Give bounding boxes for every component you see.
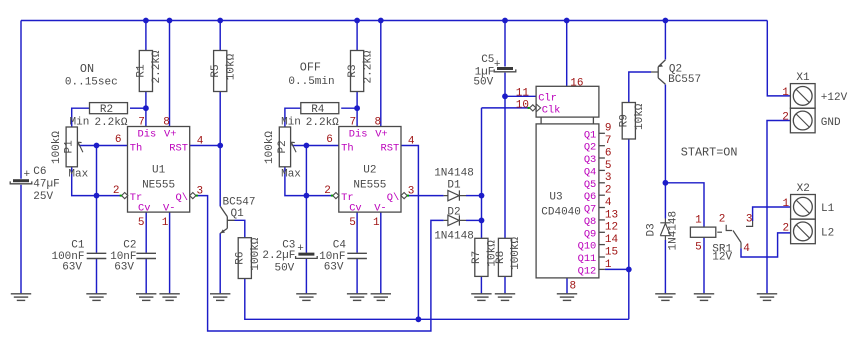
- svg-text:U3: U3: [549, 192, 562, 204]
- svg-text:2: 2: [719, 213, 726, 225]
- svg-text:Q6: Q6: [584, 191, 596, 203]
- svg-text:100kΩ: 100kΩ: [510, 237, 522, 270]
- svg-text:RST: RST: [169, 143, 188, 155]
- svg-text:4: 4: [743, 243, 750, 255]
- svg-text:Q9: Q9: [584, 228, 596, 240]
- svg-text:63V: 63V: [114, 261, 134, 273]
- svg-text:D1: D1: [447, 179, 461, 191]
- svg-text:D2: D2: [447, 207, 460, 219]
- svg-text:Min: Min: [70, 117, 90, 129]
- svg-text:1: 1: [373, 217, 380, 229]
- svg-text:X2: X2: [797, 183, 810, 195]
- svg-text:NE555: NE555: [353, 180, 386, 192]
- svg-text:U1: U1: [152, 165, 166, 177]
- svg-text:R9: R9: [619, 114, 631, 127]
- svg-text:8: 8: [163, 117, 170, 129]
- svg-text:100kΩ: 100kΩ: [51, 131, 63, 164]
- svg-text:2.2kΩ: 2.2kΩ: [151, 50, 163, 83]
- svg-text:Q3: Q3: [584, 154, 596, 166]
- svg-text:9: 9: [605, 123, 612, 135]
- svg-text:R5: R5: [210, 64, 222, 77]
- svg-text:5: 5: [349, 217, 356, 229]
- svg-text:RST: RST: [380, 143, 399, 155]
- svg-text:Q4: Q4: [584, 166, 596, 178]
- svg-text:R7: R7: [471, 251, 483, 264]
- svg-text:GND: GND: [821, 117, 841, 129]
- svg-text:R8: R8: [495, 251, 507, 264]
- svg-text:BC547: BC547: [223, 197, 256, 209]
- svg-text:100kΩ: 100kΩ: [264, 131, 276, 164]
- svg-text:12: 12: [605, 222, 618, 234]
- svg-text:6: 6: [326, 134, 333, 146]
- svg-text:12V: 12V: [712, 252, 732, 264]
- svg-text:2.2kΩ: 2.2kΩ: [306, 117, 339, 129]
- svg-text:5: 5: [138, 217, 145, 229]
- svg-text:1: 1: [782, 87, 789, 99]
- svg-text:BC557: BC557: [668, 74, 701, 86]
- svg-text:10kΩ: 10kΩ: [225, 53, 237, 80]
- svg-text:Max: Max: [68, 169, 88, 181]
- svg-text:C1: C1: [71, 239, 85, 251]
- svg-text:10kΩ: 10kΩ: [634, 103, 646, 130]
- svg-text:D3: D3: [646, 223, 658, 236]
- svg-text:V+: V+: [164, 129, 176, 141]
- svg-text:Q\: Q\: [176, 192, 188, 204]
- svg-text:16: 16: [570, 77, 583, 89]
- svg-text:50V: 50V: [274, 263, 294, 275]
- svg-text:NE555: NE555: [142, 180, 175, 192]
- svg-text:+: +: [23, 169, 30, 181]
- svg-text:Q1: Q1: [231, 208, 245, 220]
- svg-text:3: 3: [746, 214, 753, 226]
- svg-text:5: 5: [605, 160, 612, 172]
- svg-text:START=ON: START=ON: [681, 145, 738, 159]
- svg-text:4: 4: [197, 136, 204, 148]
- svg-text:11: 11: [516, 88, 530, 100]
- svg-text:8: 8: [570, 280, 577, 292]
- svg-text:63V: 63V: [324, 261, 344, 273]
- svg-text:3: 3: [605, 172, 612, 184]
- svg-text:Q11: Q11: [578, 253, 597, 265]
- svg-text:Th: Th: [130, 143, 142, 155]
- svg-text:1: 1: [782, 198, 789, 210]
- svg-text:10: 10: [516, 100, 529, 112]
- svg-text:7: 7: [605, 135, 612, 147]
- svg-text:15: 15: [605, 246, 618, 258]
- svg-text:P1: P1: [64, 140, 76, 154]
- svg-text:2.2kΩ: 2.2kΩ: [94, 117, 127, 129]
- svg-text:1: 1: [695, 214, 702, 226]
- svg-text:8: 8: [374, 117, 381, 129]
- svg-text:3: 3: [197, 186, 204, 198]
- svg-text:ON: ON: [80, 62, 94, 76]
- svg-text:1N4148: 1N4148: [668, 211, 680, 251]
- svg-text:V+: V+: [375, 129, 387, 141]
- svg-text:7: 7: [138, 117, 145, 129]
- svg-text:C4: C4: [333, 239, 347, 251]
- svg-text:2: 2: [782, 112, 789, 124]
- svg-text:C5: C5: [481, 54, 494, 66]
- svg-text:Q5: Q5: [584, 179, 596, 191]
- svg-text:4: 4: [605, 197, 612, 209]
- svg-text:6: 6: [115, 134, 122, 146]
- svg-text:V-: V-: [163, 203, 175, 215]
- svg-text:Clr: Clr: [538, 93, 557, 105]
- svg-text:7: 7: [349, 117, 356, 129]
- svg-text:Q8: Q8: [584, 216, 596, 228]
- svg-text:2.2kΩ: 2.2kΩ: [362, 50, 374, 83]
- svg-text:CD4040: CD4040: [541, 206, 581, 218]
- svg-text:X1: X1: [796, 72, 810, 84]
- svg-text:C6: C6: [33, 166, 46, 178]
- svg-text:50V: 50V: [473, 77, 493, 89]
- svg-text:Clk: Clk: [542, 105, 561, 117]
- svg-text:R3: R3: [347, 64, 359, 77]
- svg-text:C2: C2: [123, 239, 136, 251]
- svg-text:Max: Max: [281, 169, 301, 181]
- svg-text:Dis: Dis: [138, 129, 157, 141]
- svg-text:0..5min: 0..5min: [288, 76, 334, 88]
- svg-text:Dis: Dis: [349, 129, 368, 141]
- svg-text:L1: L1: [821, 203, 835, 215]
- svg-text:U2: U2: [363, 165, 376, 177]
- svg-text:6: 6: [605, 147, 612, 159]
- svg-text:R1: R1: [136, 64, 148, 78]
- svg-text:1: 1: [162, 217, 169, 229]
- svg-text:+12V: +12V: [821, 92, 848, 104]
- svg-text:Q7: Q7: [584, 204, 596, 216]
- svg-text:Q2: Q2: [584, 142, 596, 154]
- svg-text:R6: R6: [235, 251, 247, 264]
- svg-text:0..15sec: 0..15sec: [65, 77, 118, 89]
- svg-text:R4: R4: [311, 104, 325, 116]
- svg-text:2: 2: [605, 185, 612, 197]
- svg-text:47µF: 47µF: [33, 179, 59, 191]
- svg-text:1N4148: 1N4148: [434, 231, 474, 243]
- svg-text:+: +: [297, 243, 304, 255]
- svg-text:OFF: OFF: [300, 61, 321, 75]
- svg-text:2: 2: [113, 185, 120, 197]
- svg-text:4: 4: [408, 136, 415, 148]
- svg-text:1N4148: 1N4148: [434, 167, 474, 179]
- svg-text:5: 5: [695, 242, 702, 254]
- svg-text:3: 3: [408, 186, 415, 198]
- svg-text:Cv: Cv: [349, 203, 361, 215]
- svg-text:2: 2: [782, 223, 789, 235]
- svg-text:R2: R2: [100, 104, 113, 116]
- svg-text:2: 2: [324, 185, 331, 197]
- svg-text:Cv: Cv: [138, 203, 150, 215]
- svg-text:Q1: Q1: [584, 129, 596, 141]
- svg-text:Q\: Q\: [387, 192, 399, 204]
- svg-text:P2: P2: [277, 140, 289, 153]
- svg-text:13: 13: [605, 209, 618, 221]
- svg-text:14: 14: [605, 234, 619, 246]
- svg-text:Q12: Q12: [578, 265, 597, 277]
- svg-text:25V: 25V: [33, 191, 53, 203]
- svg-text:100kΩ: 100kΩ: [250, 237, 262, 270]
- svg-text:1: 1: [605, 259, 612, 271]
- svg-text:L2: L2: [821, 228, 834, 240]
- svg-text:Th: Th: [341, 143, 353, 155]
- svg-text:V-: V-: [374, 203, 386, 215]
- svg-text:Min: Min: [281, 117, 301, 129]
- svg-text:+: +: [494, 59, 501, 71]
- svg-text:Q10: Q10: [578, 241, 597, 253]
- svg-text:2.2µF: 2.2µF: [262, 250, 295, 262]
- svg-text:63V: 63V: [62, 261, 82, 273]
